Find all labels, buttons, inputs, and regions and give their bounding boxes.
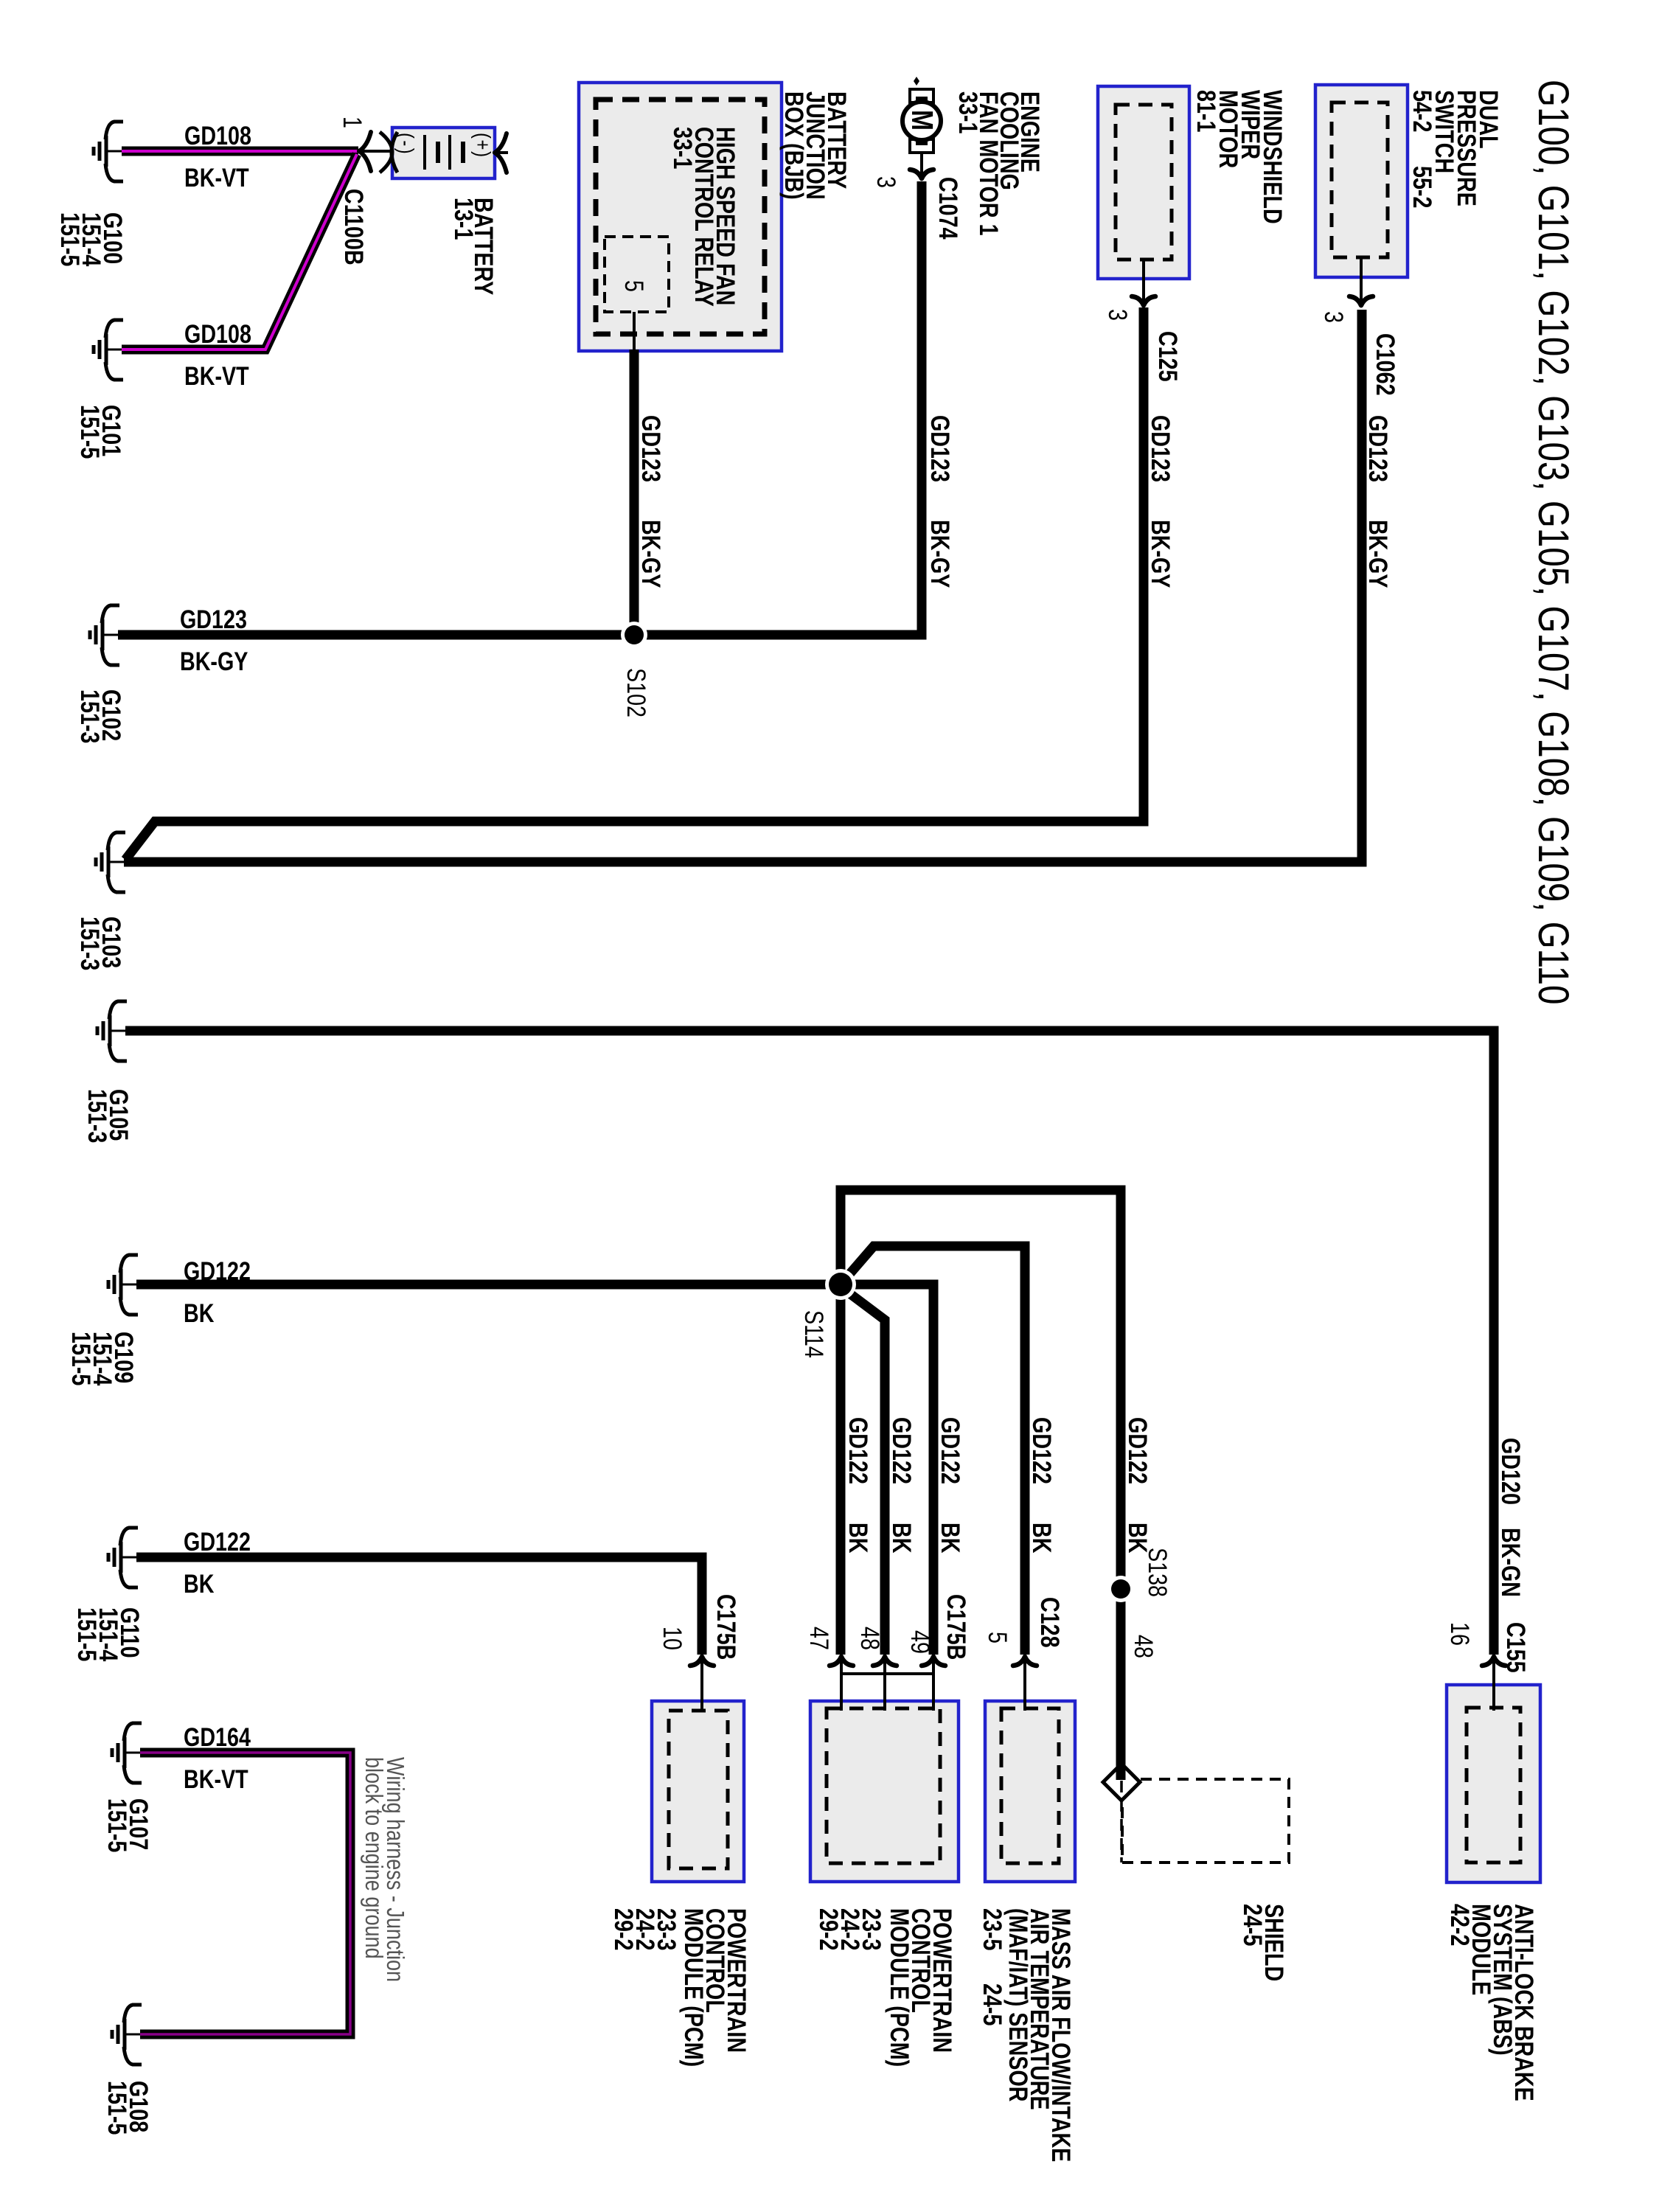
svg-text:54-2: 54-2 bbox=[1408, 90, 1436, 132]
svg-text:BK: BK bbox=[184, 1298, 214, 1327]
svg-text:S114: S114 bbox=[799, 1310, 828, 1358]
svg-text:S138: S138 bbox=[1143, 1548, 1172, 1597]
svg-text:47: 47 bbox=[804, 1627, 833, 1650]
svg-text:BK-GN: BK-GN bbox=[1496, 1528, 1525, 1597]
svg-text:(MAF/IAT) SENSOR: (MAF/IAT) SENSOR bbox=[1004, 1908, 1032, 2101]
svg-text:48: 48 bbox=[855, 1627, 884, 1650]
svg-text:C175B: C175B bbox=[942, 1594, 970, 1660]
svg-text:GD122: GD122 bbox=[184, 1527, 251, 1556]
svg-text:GD120: GD120 bbox=[1496, 1438, 1525, 1505]
svg-text:BK-GY: BK-GY bbox=[180, 647, 248, 675]
svg-text:10: 10 bbox=[658, 1627, 686, 1650]
svg-text:GD123: GD123 bbox=[180, 605, 247, 633]
svg-text:55-2: 55-2 bbox=[1408, 166, 1436, 208]
svg-text:49: 49 bbox=[905, 1630, 934, 1654]
svg-text:23-5: 23-5 bbox=[978, 1908, 1006, 1950]
svg-text:151-3: 151-3 bbox=[75, 917, 104, 970]
svg-text:(+): (+) bbox=[470, 133, 495, 159]
svg-text:GD122: GD122 bbox=[1123, 1417, 1152, 1484]
svg-text:GD122: GD122 bbox=[1027, 1417, 1056, 1484]
svg-text:33-1: 33-1 bbox=[668, 127, 697, 169]
svg-text:BK: BK bbox=[1027, 1523, 1056, 1553]
svg-text:C1062: C1062 bbox=[1371, 333, 1399, 396]
svg-text:C128: C128 bbox=[1035, 1597, 1064, 1648]
svg-text:G100, G101, G102, G103, G105,: G100, G101, G102, G103, G105, G107, G108… bbox=[1529, 80, 1577, 1004]
svg-text:BK-VT: BK-VT bbox=[184, 163, 249, 192]
svg-text:81-1: 81-1 bbox=[1192, 90, 1220, 132]
svg-text:BK-GY: BK-GY bbox=[636, 520, 665, 588]
svg-text:C1100B: C1100B bbox=[339, 189, 368, 265]
svg-text:C125: C125 bbox=[1153, 331, 1182, 382]
svg-text:151-5: 151-5 bbox=[102, 2081, 131, 2135]
svg-text:C155: C155 bbox=[1501, 1622, 1530, 1673]
svg-text:151-5: 151-5 bbox=[75, 405, 104, 459]
svg-text:29-2: 29-2 bbox=[609, 1908, 638, 1950]
svg-text:BK-VT: BK-VT bbox=[184, 361, 249, 390]
svg-text:3: 3 bbox=[1103, 309, 1132, 321]
svg-text:MODULE (PCM): MODULE (PCM) bbox=[885, 1908, 914, 2067]
svg-text:GD123: GD123 bbox=[1146, 415, 1175, 482]
svg-text:BK-GY: BK-GY bbox=[1146, 520, 1175, 588]
svg-text:151-5: 151-5 bbox=[102, 1798, 131, 1852]
svg-text:151-5: 151-5 bbox=[55, 212, 84, 266]
svg-text:24-5: 24-5 bbox=[978, 1983, 1006, 2025]
svg-text:BK: BK bbox=[936, 1523, 964, 1553]
svg-text:GD123: GD123 bbox=[1363, 415, 1392, 482]
svg-text:BK: BK bbox=[844, 1523, 872, 1553]
svg-text:3: 3 bbox=[872, 176, 900, 188]
svg-text:13-1: 13-1 bbox=[449, 198, 478, 240]
svg-text:BK: BK bbox=[887, 1523, 916, 1553]
svg-text:151-3: 151-3 bbox=[75, 689, 104, 743]
svg-text:BK: BK bbox=[184, 1569, 214, 1598]
svg-text:GD123: GD123 bbox=[636, 415, 665, 482]
svg-text:48: 48 bbox=[1129, 1635, 1158, 1658]
svg-text:33-1: 33-1 bbox=[953, 91, 982, 133]
svg-text:S102: S102 bbox=[622, 668, 650, 717]
svg-text:29-2: 29-2 bbox=[814, 1908, 843, 1950]
svg-text:GD108: GD108 bbox=[184, 319, 251, 348]
svg-text:C1074: C1074 bbox=[933, 177, 962, 240]
svg-text:BK-GY: BK-GY bbox=[1363, 520, 1392, 588]
svg-text:GD164: GD164 bbox=[184, 1722, 251, 1751]
svg-text:151-5: 151-5 bbox=[66, 1332, 95, 1385]
svg-text:GD108: GD108 bbox=[184, 121, 251, 150]
svg-text:BOX (BJB): BOX (BJB) bbox=[779, 91, 808, 200]
svg-text:GD122: GD122 bbox=[887, 1417, 916, 1484]
svg-text:(-): (-) bbox=[394, 133, 418, 156]
svg-text:GD122: GD122 bbox=[844, 1417, 872, 1484]
svg-text:3: 3 bbox=[1319, 311, 1348, 323]
svg-text:GD123: GD123 bbox=[925, 415, 954, 482]
svg-text:1: 1 bbox=[338, 116, 366, 128]
svg-text:5: 5 bbox=[619, 280, 648, 292]
svg-text:16: 16 bbox=[1445, 1622, 1474, 1646]
svg-text:42-2: 42-2 bbox=[1445, 1904, 1474, 1946]
svg-text:24-5: 24-5 bbox=[1238, 1904, 1267, 1946]
svg-text:GD122: GD122 bbox=[936, 1417, 964, 1484]
svg-text:151-5: 151-5 bbox=[72, 1607, 101, 1661]
svg-text:151-3: 151-3 bbox=[83, 1089, 111, 1143]
svg-text:C175B: C175B bbox=[712, 1594, 740, 1660]
svg-text:MODULE (PCM): MODULE (PCM) bbox=[679, 1908, 708, 2067]
svg-text:M: M bbox=[905, 110, 939, 131]
svg-text:block to engine ground: block to engine ground bbox=[360, 1757, 386, 1959]
svg-text:BK-VT: BK-VT bbox=[184, 1764, 248, 1793]
svg-text:5: 5 bbox=[983, 1632, 1012, 1644]
svg-text:BK-GY: BK-GY bbox=[925, 520, 954, 588]
svg-text:GD122: GD122 bbox=[184, 1256, 251, 1285]
